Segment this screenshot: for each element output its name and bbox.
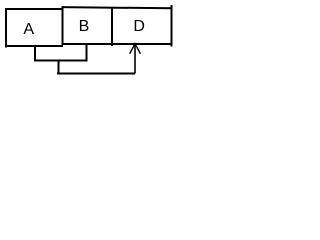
divider between B and D xyxy=(111,7,113,46)
box A top border xyxy=(5,8,63,10)
box A bottom border xyxy=(5,45,63,47)
svg-text:D: D xyxy=(133,18,145,35)
arrowhead (open V) pointing at bottom of D xyxy=(130,44,141,54)
divider between A and B xyxy=(62,7,64,46)
label B xyxy=(79,18,90,35)
label D xyxy=(133,18,145,35)
box B and D bottom border xyxy=(62,43,173,45)
svg-text:B: B xyxy=(79,18,90,35)
svg-text:A: A xyxy=(23,21,34,38)
wire: level-3 horizontal xyxy=(57,73,135,75)
wire: level-2 horizontal xyxy=(34,60,87,62)
label A xyxy=(23,21,34,38)
right border of row xyxy=(171,5,173,46)
wire: drop from bottom of A xyxy=(34,46,36,60)
wire: riser up to bottom of B xyxy=(86,44,88,62)
box A left border xyxy=(5,8,7,47)
box B and D top border xyxy=(62,7,173,8)
wire: drop from level-2 to level-3 xyxy=(58,60,60,75)
arrow shaft up to D xyxy=(134,44,136,74)
